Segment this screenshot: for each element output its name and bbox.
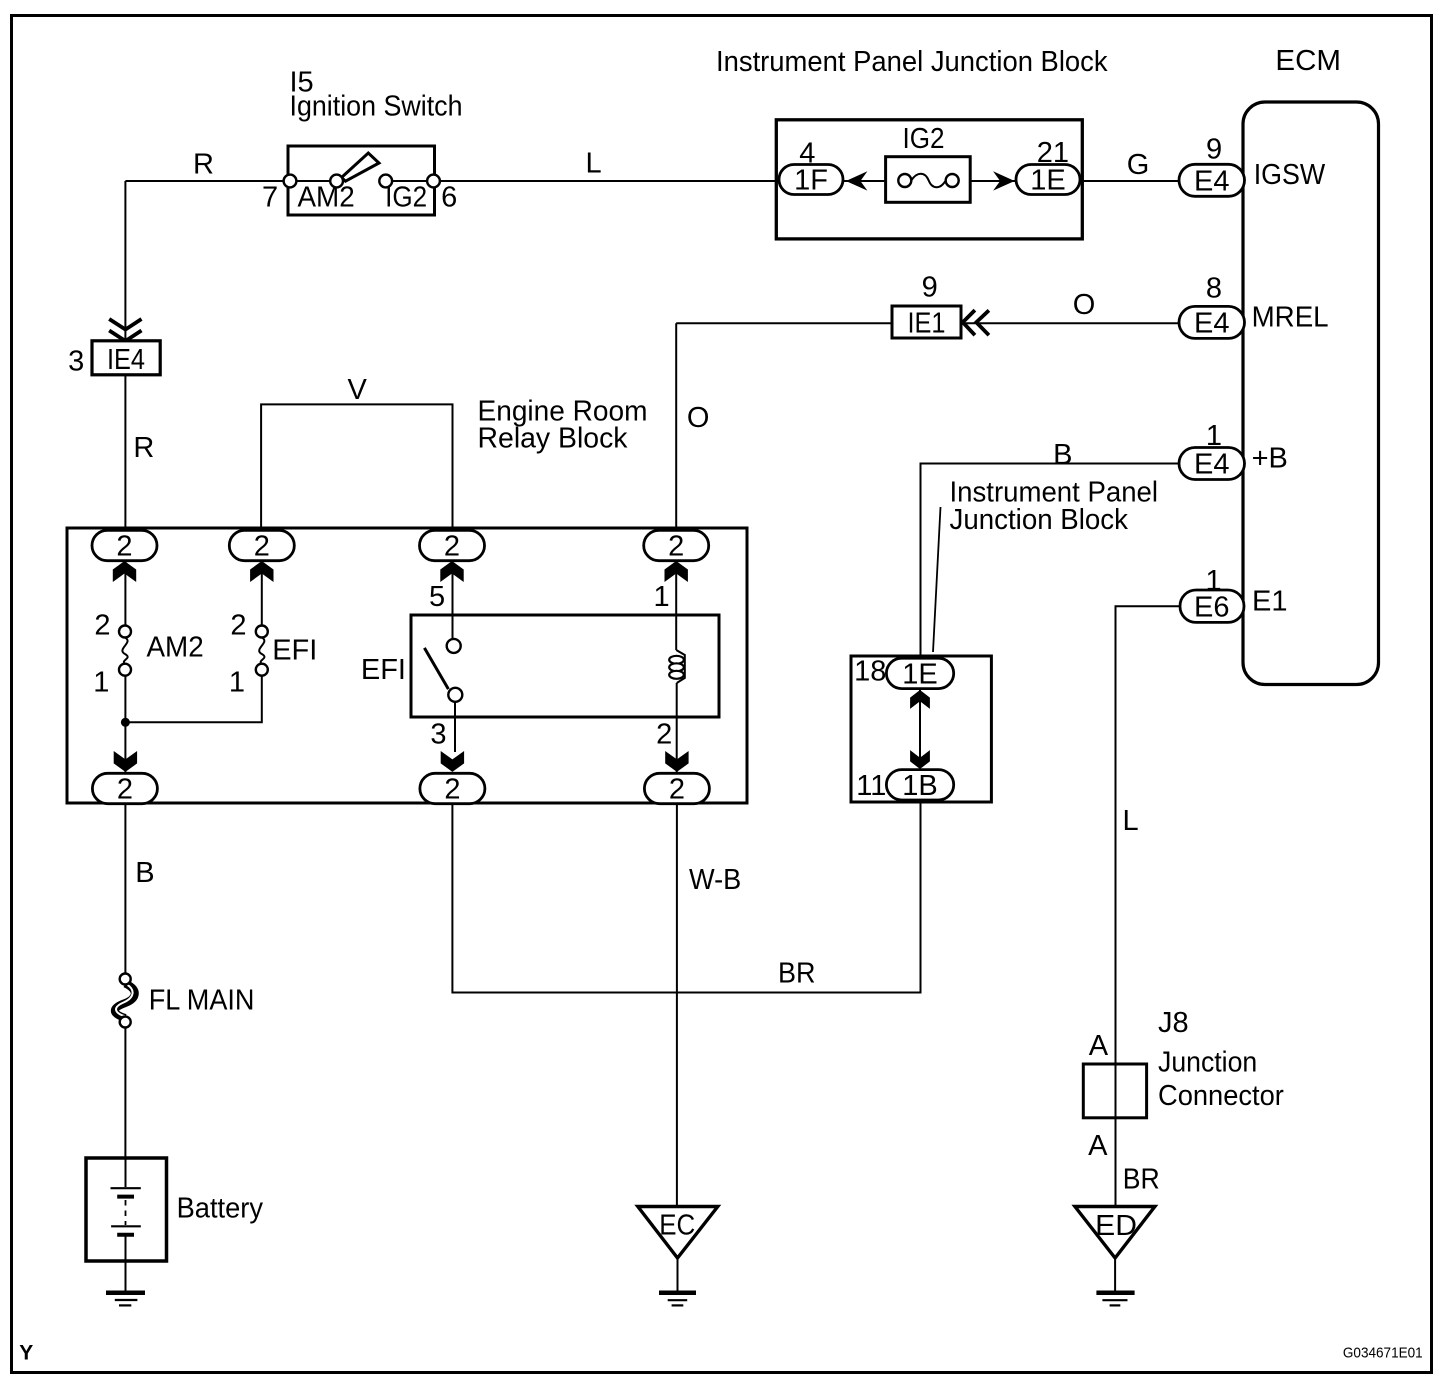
wire BR (1B to relay pin3) — [452, 802, 920, 993]
svg-text:2: 2 — [656, 719, 672, 751]
svg-text:2: 2 — [669, 774, 685, 806]
svg-text:R: R — [193, 149, 214, 181]
wire O right segment — [961, 322, 1180, 324]
svg-text:Junction Block: Junction Block — [950, 504, 1129, 536]
svg-text:1E: 1E — [1030, 165, 1065, 197]
terminal IG2 — [379, 175, 392, 188]
svg-text:8: 8 — [1206, 273, 1222, 305]
wire pin5 — [452, 561, 454, 640]
wire fuse to 1E — [970, 180, 1017, 182]
ground symbol ED — [1096, 1290, 1134, 1295]
ECM pin E4-9 IGSW — [1179, 164, 1245, 196]
svg-text:E1: E1 — [1252, 586, 1287, 618]
arrow up (AM2 top) — [113, 561, 136, 582]
battery plate short 2 — [117, 1233, 134, 1237]
battery wire to ground — [125, 1235, 127, 1292]
relay block pin oval 2 (pin3 bottom) — [420, 773, 485, 803]
svg-text:IG2: IG2 — [385, 182, 427, 214]
wire R (IE4 to relay block) — [124, 375, 126, 532]
svg-text:1: 1 — [654, 581, 670, 613]
instrument panel junction block box (2nd) — [851, 656, 991, 802]
connector oval 1E (block2) — [886, 658, 953, 688]
svg-text:ECM: ECM — [1275, 45, 1341, 77]
svg-text:Junction: Junction — [1158, 1047, 1257, 1079]
svg-text:AM2: AM2 — [147, 631, 204, 663]
connector IE4 box — [92, 341, 160, 375]
terminal 7 — [284, 175, 297, 188]
arrow up (pin5) — [440, 561, 463, 582]
svg-text:BR: BR — [778, 958, 816, 990]
wire into fuse — [843, 180, 886, 182]
svg-text:18: 18 — [854, 656, 886, 688]
wire coil column upper — [675, 561, 677, 650]
svg-text:Battery: Battery — [177, 1193, 264, 1225]
wire R vertical (ignition feed) — [124, 181, 126, 341]
arrow down (AM2 bottom) — [114, 751, 137, 772]
svg-text:IG2: IG2 — [903, 123, 945, 155]
wire EC to ground — [677, 1258, 679, 1292]
relay block pin oval 2 (AM2 bottom) — [92, 773, 157, 803]
connector oval 1F — [779, 165, 843, 195]
connector oval 1B — [886, 770, 953, 800]
battery ground — [106, 1290, 145, 1295]
svg-text:Y: Y — [19, 1342, 33, 1365]
relay switch blade — [424, 648, 448, 689]
svg-text:1: 1 — [1206, 420, 1222, 452]
svg-text:EFI: EFI — [361, 654, 406, 686]
svg-text:2: 2 — [444, 774, 460, 806]
svg-text:BR: BR — [1123, 1164, 1160, 1196]
wire L (ignition switch IG2 to junction block) — [384, 180, 782, 182]
connector IE4 chevrons — [109, 319, 141, 341]
svg-text:2: 2 — [230, 610, 246, 642]
relay block pin oval 2 (coil bottom) — [644, 773, 709, 803]
wire AM2 column upper — [124, 561, 126, 626]
wire 1E-1B — [919, 689, 921, 770]
ECM pin E6-1 E1 — [1180, 590, 1244, 622]
connector oval 1E — [1016, 165, 1080, 195]
ignition switch I5 box — [288, 146, 435, 215]
svg-text:E4: E4 — [1194, 449, 1229, 481]
battery internal wire top — [125, 1158, 127, 1187]
svg-text:B: B — [1053, 439, 1072, 471]
relay switch contact top — [447, 639, 461, 653]
svg-text:L: L — [586, 148, 602, 180]
svg-text:Ignition Switch: Ignition Switch — [290, 90, 463, 122]
svg-text:E4: E4 — [1194, 307, 1229, 339]
svg-text:2: 2 — [94, 610, 110, 642]
wire E1 to ED ground — [1116, 606, 1181, 1206]
wire W-B (coil bottom to EC ground) — [676, 804, 678, 1206]
wire V — [261, 404, 452, 529]
svg-text:V: V — [348, 374, 368, 406]
svg-text:E4: E4 — [1194, 165, 1229, 197]
svg-text:2: 2 — [444, 531, 460, 563]
svg-text:5: 5 — [429, 581, 445, 613]
battery dashed link — [125, 1200, 127, 1225]
svg-text:7: 7 — [262, 182, 278, 214]
wire O vertical (relay pin1 to IE1 row) — [675, 323, 677, 532]
wire ED to ground — [1114, 1258, 1116, 1292]
svg-text:+B: +B — [1252, 443, 1288, 475]
wire FL MAIN to battery — [124, 1028, 126, 1159]
wire B (+B feed) — [921, 464, 1181, 660]
chevrons (IE1) — [963, 310, 989, 335]
svg-text:A: A — [1089, 1030, 1109, 1062]
relay block pin oval 2 (relay coil top) — [644, 530, 709, 560]
wire EFI fuse column — [261, 561, 263, 626]
svg-text:3: 3 — [430, 719, 446, 751]
arrow right (into 1E) — [993, 171, 1015, 190]
relay block pin oval 2 (relay pin5 top) — [420, 530, 485, 560]
svg-text:2: 2 — [116, 531, 132, 563]
wire O (MREL row horizontal) — [676, 322, 892, 324]
battery plate short 1 — [117, 1195, 134, 1199]
terminal AM2 — [330, 175, 343, 188]
svg-text:Relay Block: Relay Block — [478, 423, 628, 455]
svg-text:MREL: MREL — [1252, 302, 1329, 334]
svg-text:1B: 1B — [902, 770, 937, 802]
svg-text:G034671E01: G034671E01 — [1343, 1344, 1423, 1361]
svg-text:2: 2 — [668, 531, 684, 563]
wire pin3 — [454, 702, 456, 752]
battery plate long 1 — [111, 1187, 141, 1189]
svg-text:IE4: IE4 — [107, 344, 145, 376]
svg-text:FL MAIN: FL MAIN — [149, 985, 255, 1017]
svg-text:2: 2 — [254, 531, 270, 563]
svg-text:2: 2 — [117, 774, 133, 806]
ECM pin E4-1 +B — [1179, 448, 1245, 480]
arrow down (pin3) — [441, 751, 464, 772]
svg-text:11: 11 — [856, 770, 886, 802]
junction connector J8 box — [1083, 1064, 1146, 1118]
terminal 6 — [427, 175, 440, 188]
annotation line — [933, 507, 941, 652]
svg-text:21: 21 — [1037, 137, 1069, 169]
wire G (1E to ECM IGSW) — [1080, 180, 1180, 182]
engine room relay block box — [67, 528, 747, 803]
svg-text:A: A — [1088, 1130, 1108, 1162]
switch lever — [342, 153, 380, 181]
svg-text:IGSW: IGSW — [1254, 159, 1326, 191]
arrow down (1B) — [910, 750, 930, 769]
svg-text:EFI: EFI — [272, 634, 317, 666]
wire coil column lower — [676, 683, 678, 774]
relay coil — [676, 650, 685, 683]
battery plate long 2 — [111, 1225, 141, 1227]
svg-text:4: 4 — [799, 138, 815, 170]
relay block pin oval 2 (EFI fuse top) — [229, 530, 294, 560]
svg-text:1: 1 — [229, 666, 245, 698]
ground symbol EC — [659, 1290, 696, 1295]
wire R (battery feed to ignition switch, horizontal top) — [125, 180, 340, 182]
svg-text:IE1: IE1 — [908, 307, 946, 339]
svg-text:1: 1 — [1206, 565, 1222, 597]
arrow up (1E) — [910, 690, 930, 709]
arrow up (EFI fuse) — [250, 561, 273, 582]
ECM body — [1243, 102, 1379, 685]
svg-text:6: 6 — [441, 182, 457, 214]
fuse IG2 element — [911, 174, 945, 188]
svg-text:L: L — [1123, 805, 1139, 837]
svg-text:Connector: Connector — [1158, 1080, 1284, 1112]
svg-text:3: 3 — [68, 346, 84, 378]
arrow up (coil) — [665, 561, 688, 582]
svg-text:AM2: AM2 — [298, 182, 355, 214]
fuse EFI — [259, 638, 264, 665]
relay switch contact bottom — [448, 688, 462, 702]
connector IE1 box — [892, 306, 961, 338]
svg-text:1: 1 — [93, 666, 109, 698]
ground EC triangle — [638, 1207, 718, 1259]
wire B (battery to relay block) — [124, 804, 126, 974]
svg-text:1E: 1E — [902, 658, 937, 690]
ECM pin E4-8 MREL — [1179, 306, 1245, 338]
arrow down (coil bottom) — [665, 751, 688, 772]
arrow left (into 1F) — [846, 171, 868, 190]
svg-text:R: R — [133, 432, 154, 464]
instrument panel junction block box (top) — [776, 120, 1082, 239]
fusible link FL MAIN — [115, 984, 135, 1019]
battery box — [86, 1158, 167, 1261]
svg-text:9: 9 — [1206, 134, 1222, 166]
svg-text:J8: J8 — [1158, 1007, 1189, 1039]
fuse AM2 — [122, 638, 127, 665]
junction dot — [121, 718, 130, 727]
svg-text:EC: EC — [659, 1210, 695, 1242]
svg-text:W-B: W-B — [689, 864, 741, 896]
ground ED triangle — [1075, 1207, 1155, 1259]
wire AM2 column lower — [124, 676, 126, 774]
relay block pin oval 2 (AM2 top) — [92, 530, 157, 560]
svg-text:Instrument Panel Junction Bloc: Instrument Panel Junction Block — [716, 46, 1108, 78]
fuse IG2 box — [886, 157, 971, 203]
svg-text:G: G — [1127, 149, 1150, 181]
svg-text:9: 9 — [922, 272, 938, 304]
EFI relay box — [411, 615, 719, 717]
wire jumper to EFI fuse — [125, 676, 261, 723]
svg-text:O: O — [1073, 289, 1096, 321]
svg-text:B: B — [135, 857, 154, 889]
svg-text:O: O — [687, 402, 710, 434]
svg-text:ED: ED — [1095, 1210, 1137, 1242]
